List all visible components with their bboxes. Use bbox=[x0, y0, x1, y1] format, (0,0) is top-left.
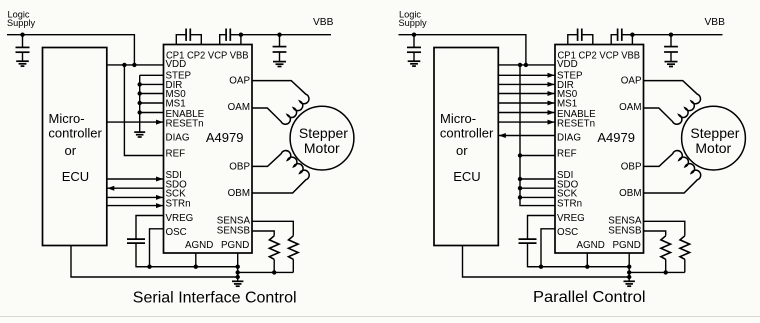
capacitor C22 VREG bypass bbox=[519, 239, 537, 243]
pin labels right column bbox=[608, 76, 642, 237]
capacitor C15 VBB bulk bbox=[273, 35, 287, 62]
node MS1 junction bbox=[138, 101, 142, 105]
node VDD/rail junction bbox=[524, 63, 528, 67]
wire VREG to capacitor bbox=[528, 216, 556, 240]
svg-text:Motor: Motor bbox=[304, 140, 340, 156]
winding phase B OBP-OBM bbox=[252, 151, 309, 193]
wire RESETn from micro bbox=[498, 121, 555, 123]
ground logic supply bypass bbox=[16, 61, 29, 66]
arrow into DIR bbox=[548, 82, 555, 87]
node OSC/rail junction bbox=[539, 265, 543, 269]
wire VBB rail bbox=[241, 34, 331, 36]
resistor R21 sense B bbox=[661, 236, 671, 259]
node ENABLE junction bbox=[138, 110, 142, 114]
node logic-supply junction bbox=[412, 33, 416, 37]
svg-text:OBM: OBM bbox=[228, 188, 250, 199]
wire sense resistor A to rail bbox=[292, 259, 294, 272]
wire VDD net bbox=[498, 64, 555, 66]
wire ENABLE from micro bbox=[498, 112, 555, 114]
pin labels bottom AGND PGND bbox=[577, 240, 641, 251]
svg-text:Stepper: Stepper bbox=[299, 125, 348, 141]
stepper motor M2 bbox=[682, 106, 746, 170]
svg-text:controller: controller bbox=[440, 125, 494, 140]
node logic-supply junction bbox=[20, 33, 24, 37]
arrow into SDI bbox=[156, 177, 163, 182]
wire SDI tie bbox=[520, 178, 555, 180]
wire VBB pin stub bbox=[240, 35, 242, 45]
wire VBB rail bbox=[632, 34, 722, 36]
winding phase A OAP-OAM bbox=[644, 81, 701, 125]
node SDI junction bbox=[518, 177, 522, 181]
wire SENSB to sense resistor bbox=[644, 231, 666, 236]
wire logic-supply rail to VDD bbox=[7, 35, 134, 65]
wire VREG to capacitor bbox=[136, 216, 164, 240]
wire sense resistor B to rail bbox=[665, 259, 667, 272]
micro-controller block U12 bbox=[43, 48, 107, 246]
resistor R22 sense A bbox=[680, 236, 690, 259]
node VBB junction bbox=[239, 33, 243, 37]
node VDD/rail junction bbox=[132, 63, 136, 67]
wire VBB pin stub bbox=[631, 35, 633, 45]
ground step/dir/ms tie-off bbox=[134, 132, 145, 137]
arrow into micro from DIAG bbox=[499, 133, 506, 138]
node OSC/rail junction bbox=[147, 265, 151, 269]
capacitor C11 logic supply bypass bbox=[16, 35, 30, 62]
svg-text:VREG: VREG bbox=[166, 213, 194, 224]
wire PGND stub to ground bbox=[628, 253, 630, 281]
arrow into RESETn bbox=[548, 120, 555, 125]
wire AGND stub bbox=[195, 253, 197, 267]
svg-text:Serial Interface Control: Serial Interface Control bbox=[133, 290, 297, 307]
capacitor C25 VBB bulk bbox=[664, 35, 678, 62]
wire DIR tie-off bbox=[140, 83, 164, 85]
ground VBB bulk cap bbox=[273, 62, 286, 67]
micro-controller text bbox=[48, 111, 102, 184]
node SDO junction bbox=[518, 186, 522, 190]
A4979 driver U11 bbox=[164, 45, 253, 254]
node AGND/rail junction bbox=[194, 265, 198, 269]
svg-text:DIAG: DIAG bbox=[166, 132, 190, 143]
pin labels bottom AGND PGND bbox=[185, 240, 249, 251]
micro-controller block U22 bbox=[434, 48, 498, 246]
capacitor C13 CP1-CP2 bbox=[176, 29, 201, 45]
wire SENSA to sense resistor bbox=[252, 221, 293, 236]
wire sense ground rail bbox=[629, 271, 685, 273]
svg-text:Micro-: Micro- bbox=[49, 111, 85, 126]
node PGND/micro rail junction bbox=[627, 275, 631, 279]
node PGND/agnd rail junction bbox=[627, 265, 631, 269]
svg-text:STRn: STRn bbox=[166, 198, 191, 209]
svg-text:Parallel Control: Parallel Control bbox=[533, 289, 646, 306]
arrow into micro from SDO bbox=[107, 186, 114, 191]
wire analog ground rail bbox=[528, 266, 630, 268]
svg-text:AGND: AGND bbox=[185, 240, 213, 251]
wire MS1 tie-off bbox=[140, 102, 164, 104]
wire serial tie-high bus bbox=[520, 65, 555, 206]
page edge artifact line bbox=[0, 316, 760, 318]
node PGND/sense rail junction bbox=[627, 270, 631, 274]
svg-text:VDD: VDD bbox=[557, 59, 578, 70]
capacitor C24 VCP-VBB bbox=[611, 29, 632, 45]
wire OSC to ground rail bbox=[150, 229, 164, 267]
svg-text:Supply: Supply bbox=[399, 18, 427, 28]
svg-text:A4979: A4979 bbox=[206, 130, 244, 145]
wire STEP tie-off bus bbox=[140, 75, 164, 131]
node REF junction bbox=[518, 153, 522, 157]
resistor R12 sense A bbox=[289, 236, 299, 259]
wire ENABLE tie-off bbox=[140, 112, 164, 114]
winding phase A OAP-OAM bbox=[252, 81, 309, 125]
capacitor C14 VCP-VBB bbox=[220, 29, 241, 45]
svg-text:OBP: OBP bbox=[621, 161, 642, 172]
ground PGND star point bbox=[232, 281, 243, 286]
svg-text:VREG: VREG bbox=[557, 213, 585, 224]
wire SDO to micro bbox=[107, 187, 164, 189]
svg-text:RESETn: RESETn bbox=[166, 119, 204, 130]
wire analog ground rail bbox=[136, 266, 238, 268]
svg-text:OAP: OAP bbox=[229, 76, 250, 87]
wire micro ground return bbox=[463, 246, 630, 278]
wire SCK tie bbox=[520, 196, 555, 198]
wire VDD net bbox=[107, 64, 164, 66]
arrow into SCK bbox=[156, 195, 163, 200]
svg-text:controller: controller bbox=[48, 125, 102, 140]
winding phase B OBP-OBM bbox=[644, 151, 701, 193]
svg-text:OBP: OBP bbox=[229, 161, 250, 172]
svg-text:Micro-: Micro- bbox=[440, 111, 476, 126]
wire OSC to ground rail bbox=[541, 229, 555, 267]
node VBB bulk cap junction bbox=[277, 33, 281, 37]
svg-text:OAM: OAM bbox=[228, 102, 250, 113]
svg-text:ECU: ECU bbox=[62, 169, 89, 184]
net label Logic Supply bbox=[7, 9, 35, 28]
node sense B / rail junction bbox=[664, 270, 668, 274]
wire SCK from micro bbox=[107, 196, 164, 198]
svg-text:OSC: OSC bbox=[557, 227, 578, 238]
svg-text:SENSB: SENSB bbox=[217, 225, 251, 236]
svg-text:PGND: PGND bbox=[613, 240, 641, 251]
node SCK junction bbox=[518, 195, 522, 199]
svg-text:VBB: VBB bbox=[313, 17, 334, 28]
svg-text:Stepper: Stepper bbox=[690, 125, 739, 141]
svg-text:VBB: VBB bbox=[705, 17, 726, 28]
wire DIR from micro bbox=[498, 83, 555, 85]
wire MS0 tie-off bbox=[140, 93, 164, 95]
wire REF tie bbox=[520, 155, 555, 157]
ground PGND star point bbox=[624, 281, 635, 286]
wire SENSB to sense resistor bbox=[252, 231, 274, 236]
wire MS0 from micro bbox=[498, 93, 555, 95]
svg-text:OSC: OSC bbox=[166, 227, 187, 238]
svg-text:ECU: ECU bbox=[453, 169, 480, 184]
wire RESETn from micro bbox=[107, 121, 164, 123]
node bus/VDD junction bbox=[518, 63, 522, 67]
wire AGND stub bbox=[586, 253, 588, 267]
wire DIAG to micro bbox=[498, 135, 555, 137]
wire SDI from micro bbox=[107, 178, 164, 180]
node MS0 junction bbox=[138, 91, 142, 95]
capacitor C21 logic supply bypass bbox=[407, 35, 421, 62]
svg-text:VDD: VDD bbox=[166, 59, 187, 70]
node PGND/micro rail junction bbox=[236, 275, 240, 279]
svg-text:or: or bbox=[456, 143, 468, 158]
resistor R11 sense B bbox=[269, 236, 279, 259]
ground logic supply bypass bbox=[408, 61, 421, 66]
wire VREG cap to ground rail bbox=[528, 243, 630, 266]
capacitor C23 CP1-CP2 bbox=[568, 29, 593, 45]
arrow into ENABLE bbox=[548, 110, 555, 115]
node VBB junction bbox=[630, 33, 634, 37]
A4979 driver U21 bbox=[555, 45, 644, 254]
svg-text:Supply: Supply bbox=[7, 18, 35, 28]
arrow into STRn bbox=[156, 203, 163, 208]
svg-text:STRn: STRn bbox=[557, 198, 582, 209]
arrow into MS1 bbox=[548, 101, 555, 106]
wire logic-supply rail to VDD bbox=[399, 35, 526, 65]
node DIR junction bbox=[138, 82, 142, 86]
svg-text:RESETn: RESETn bbox=[557, 119, 595, 130]
svg-text:REF: REF bbox=[557, 149, 577, 160]
svg-text:A4979: A4979 bbox=[597, 130, 635, 145]
wire SENSA to sense resistor bbox=[644, 221, 685, 236]
wire sense resistor A to rail bbox=[684, 259, 686, 272]
node sense B / rail junction bbox=[272, 270, 276, 274]
wire micro ground return bbox=[71, 246, 238, 278]
net label Logic Supply bbox=[399, 9, 427, 28]
svg-text:OAM: OAM bbox=[619, 102, 641, 113]
svg-text:PGND: PGND bbox=[221, 240, 249, 251]
pin labels left column bbox=[557, 59, 596, 238]
wire SDO tie bbox=[520, 187, 555, 189]
ground VBB bulk cap bbox=[665, 62, 678, 67]
wire MS1 from micro bbox=[498, 102, 555, 104]
arrow into RESETn bbox=[156, 120, 163, 125]
svg-text:or: or bbox=[65, 143, 77, 158]
svg-text:REF: REF bbox=[166, 149, 186, 160]
node VDD/REF junction bbox=[122, 63, 126, 67]
wire sense ground rail bbox=[238, 271, 294, 273]
wire STRn from micro bbox=[107, 205, 164, 207]
capacitor C12 VREG bypass bbox=[127, 239, 145, 243]
node AGND/rail junction bbox=[585, 265, 589, 269]
node VBB bulk cap junction bbox=[669, 33, 673, 37]
svg-text:SENSB: SENSB bbox=[608, 225, 642, 236]
pin labels right column bbox=[217, 76, 251, 237]
arrow into STEP bbox=[548, 73, 555, 78]
wire sense resistor B to rail bbox=[273, 259, 275, 272]
wire VDD to REF pin bbox=[124, 65, 163, 156]
svg-text:Motor: Motor bbox=[695, 140, 731, 156]
node PGND/agnd rail junction bbox=[236, 265, 240, 269]
pin labels left column bbox=[166, 59, 205, 238]
svg-text:OBM: OBM bbox=[619, 188, 641, 199]
wire STEP from micro bbox=[498, 74, 555, 76]
micro-controller text bbox=[440, 111, 494, 184]
arrow into MS0 bbox=[548, 91, 555, 96]
svg-text:AGND: AGND bbox=[577, 240, 605, 251]
wire PGND stub to ground bbox=[237, 253, 239, 281]
svg-text:OAP: OAP bbox=[621, 76, 642, 87]
node PGND/sense rail junction bbox=[236, 270, 240, 274]
stepper motor M1 bbox=[290, 106, 354, 170]
svg-text:DIAG: DIAG bbox=[557, 132, 581, 143]
wire VREG cap to ground rail bbox=[136, 243, 238, 266]
